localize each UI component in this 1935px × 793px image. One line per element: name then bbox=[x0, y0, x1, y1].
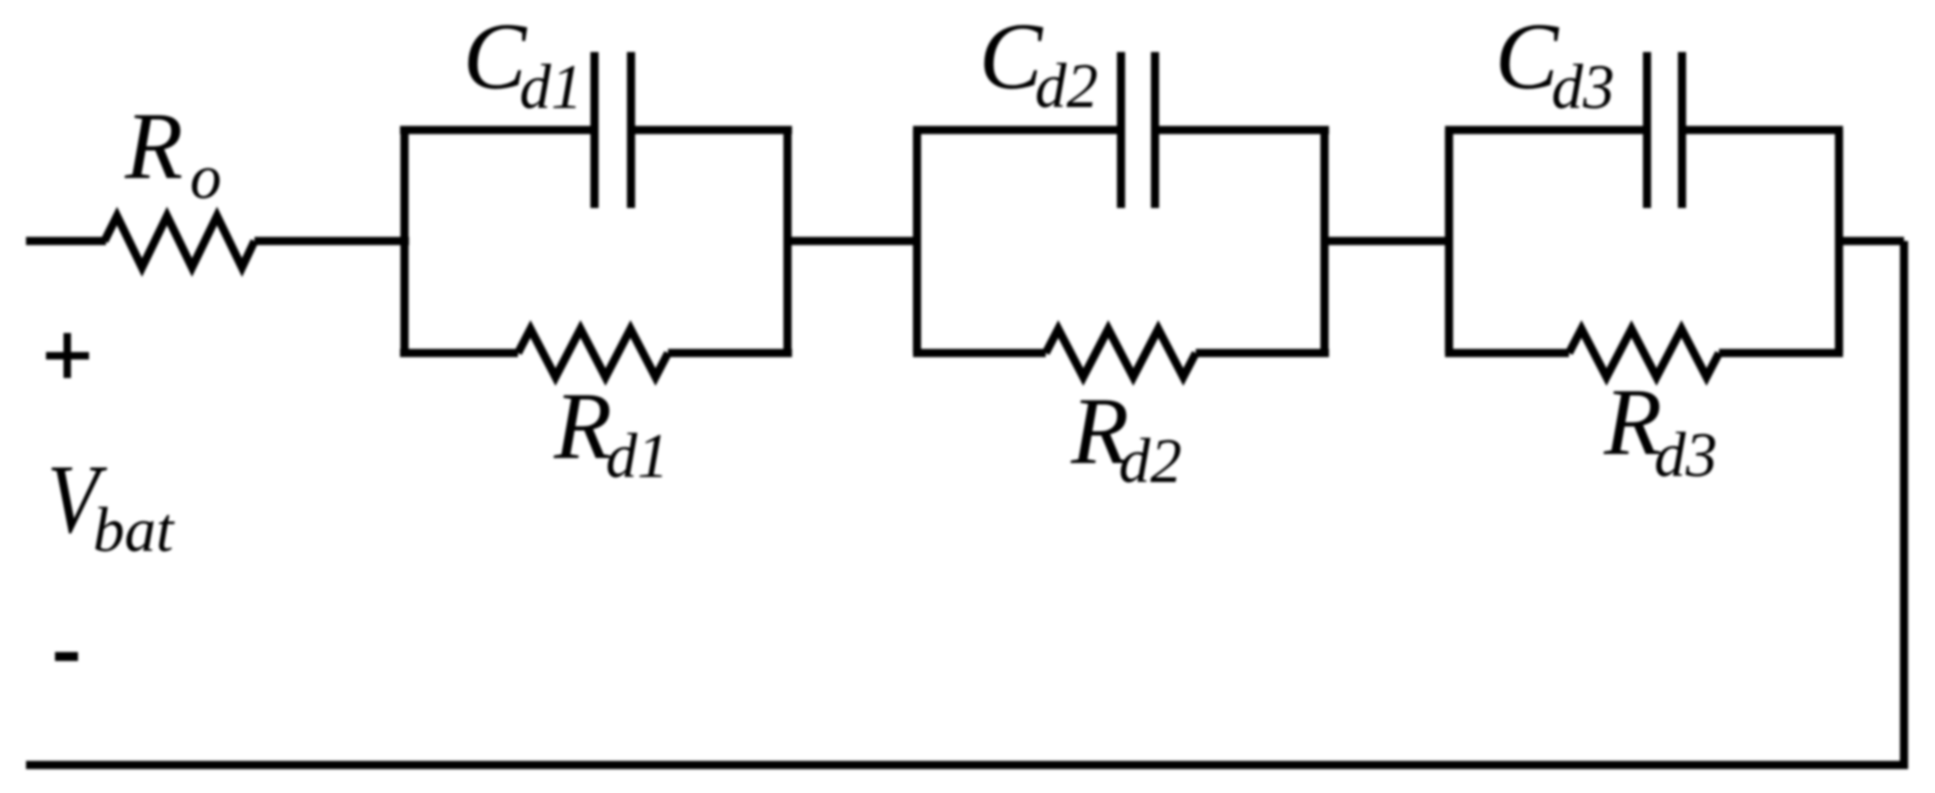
svg-text:C: C bbox=[463, 3, 528, 109]
svg-text:d3: d3 bbox=[1654, 420, 1717, 490]
svg-text:R: R bbox=[124, 93, 183, 199]
svg-text:bat: bat bbox=[93, 495, 175, 565]
svg-text:d2: d2 bbox=[1119, 426, 1182, 496]
svg-text:C: C bbox=[1495, 3, 1560, 109]
svg-text:o: o bbox=[190, 142, 222, 212]
svg-text:d1: d1 bbox=[520, 52, 583, 122]
svg-text:d2: d2 bbox=[1035, 51, 1098, 121]
svg-text:R: R bbox=[553, 373, 612, 479]
svg-text:R: R bbox=[1603, 369, 1662, 475]
svg-text:d1: d1 bbox=[606, 421, 669, 491]
svg-text:d3: d3 bbox=[1552, 52, 1615, 122]
